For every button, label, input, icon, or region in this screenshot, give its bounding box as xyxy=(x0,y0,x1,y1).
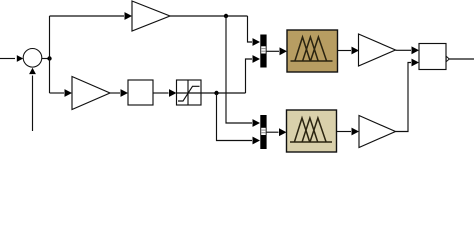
wire square block to saturation xyxy=(153,92,169,94)
wire bottom fuzzy output to gain xyxy=(337,131,352,133)
block square (integrator) xyxy=(128,80,153,105)
output port chevron xyxy=(446,56,449,61)
gain triangle top right xyxy=(359,34,396,66)
block output sum (rect right) xyxy=(419,44,446,70)
node branch vertical x=49.5 xyxy=(49,16,51,93)
node junction dot sum output xyxy=(47,56,51,60)
wire corner down into top mux input 1 xyxy=(248,16,253,42)
wire top row into gain triangle xyxy=(50,15,125,17)
wire sum output to branch node xyxy=(42,58,50,60)
gain triangle bottom right xyxy=(359,116,396,148)
wire riser from top line down to bottom mux input 1 xyxy=(226,16,252,123)
wire drop down into bottom mux input 2 xyxy=(217,93,253,141)
mux bottom (black bar) xyxy=(260,115,266,149)
wire riser up into top mux input 2 xyxy=(246,59,253,93)
wire bottom mux output to fuzzy block xyxy=(267,131,279,133)
wire top mux output to fuzzy block xyxy=(267,50,279,52)
wire middle gain to square block xyxy=(110,92,120,94)
gain triangle top (big) xyxy=(132,1,170,31)
summing junction circle xyxy=(23,49,42,68)
wire top fuzzy output to gain xyxy=(338,50,352,52)
block fuzzy logic controller bottom xyxy=(287,110,337,152)
wire feedback vertical into summing junction bottom xyxy=(32,76,34,132)
mux top (black bar) xyxy=(260,35,266,68)
wire bottom gain up to output block input 2 xyxy=(396,63,412,132)
gain triangle middle xyxy=(72,77,110,110)
wire input from left into summing junction xyxy=(0,58,15,60)
node junction dot top line xyxy=(224,14,228,18)
node junction dot saturation output xyxy=(214,91,218,95)
wire middle row from branch into gain triangle xyxy=(50,92,65,94)
block saturation xyxy=(177,80,202,105)
wire final output line xyxy=(449,58,474,60)
wire gain to output block input 1 xyxy=(396,49,412,51)
block fuzzy logic controller top xyxy=(287,30,338,72)
wire saturation output to junction xyxy=(201,92,246,94)
wire top gain output xyxy=(170,15,248,17)
